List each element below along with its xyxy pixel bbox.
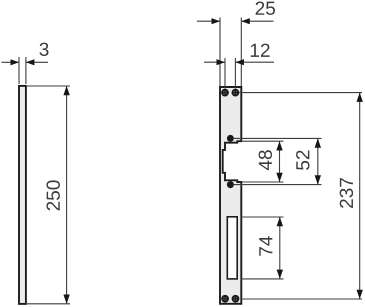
dimension 52: label (296, 150, 309, 169)
dimension 48: top arrow (276, 141, 282, 150)
dimension 250: top arrow (63, 86, 69, 95)
dimension 237: dimension line (359, 93, 361, 299)
dimension 74: label (259, 236, 272, 256)
dimension 250: top extension line (26, 85, 70, 87)
latch cutout upper stud (227, 135, 234, 142)
dimension 25: dimension line left segment (197, 20, 220, 22)
dimension 3: label (40, 43, 49, 56)
dimension 48: bottom arrow (276, 173, 282, 182)
dimension 250: dimension line (66, 86, 68, 304)
dimension 52: top extension line (234, 137, 322, 139)
dimension 48: dimension line (279, 141, 281, 182)
side view plate body (19, 86, 26, 304)
dimension 25: dimension line right segment (241, 20, 273, 22)
dimension 237: bottom extension line (241, 298, 362, 300)
dimension 25: extension line left (219, 18, 221, 87)
dimension 3: extension line right (25, 57, 27, 84)
dimension 237: label (340, 178, 353, 208)
dimension 74: top arrow (277, 217, 283, 226)
dimension 74: bottom extension line (241, 278, 284, 280)
dimension 12: extension line left (224, 58, 226, 89)
dimension 25: extension line right (240, 18, 242, 87)
top screw hole left (221, 89, 229, 97)
dimension 3: dimension line right segment (26, 61, 48, 63)
dimension 12: left arrow (217, 59, 226, 65)
dimension 74: top extension line (241, 216, 284, 218)
dimension 3: right arrow (26, 59, 35, 65)
dimension 237: top arrow (357, 93, 363, 102)
dimension 250: bottom extension line (26, 303, 70, 305)
dimension 237: top extension line (240, 92, 362, 94)
dimension 52: top arrow (315, 138, 321, 147)
dimension 237: bottom arrow (357, 290, 363, 299)
front view faceplate body with latch cutout (220, 87, 241, 304)
lower slot (227, 217, 237, 279)
dimension 3: left arrow (11, 59, 20, 65)
dimension 48: top extension line (241, 140, 283, 142)
bottom screw hole left (221, 295, 229, 303)
dimension 48: bottom extension line (241, 181, 283, 183)
dimension 25: left arrow (212, 18, 221, 24)
dimension 52: dimension line (317, 138, 319, 184)
dimension 52: bottom extension line (234, 184, 322, 186)
dimension 48: label (259, 150, 272, 170)
dimension 12: right arrow (235, 59, 244, 65)
dimension 3: extension line left (18, 57, 20, 84)
dimension 52: bottom arrow (315, 175, 321, 184)
dimension 12: extension line right (234, 58, 236, 89)
latch cutout lower stud (227, 181, 234, 188)
dimension 12: dimension line right segment (235, 61, 274, 63)
dimension 25: right arrow (241, 18, 250, 24)
dimension 250: label (46, 180, 59, 210)
dimension 74: dimension line (279, 217, 281, 279)
dimension 12: label (251, 44, 270, 57)
dimension 250: bottom arrow (63, 295, 69, 304)
top screw hole right (232, 89, 240, 97)
dimension 12: dimension line left segment (204, 61, 225, 63)
dimension 74: bottom arrow (277, 270, 283, 279)
dimension 3: dimension line left segment (2, 61, 20, 63)
bottom screw hole right (232, 295, 240, 303)
dimension 25: label (256, 1, 275, 14)
